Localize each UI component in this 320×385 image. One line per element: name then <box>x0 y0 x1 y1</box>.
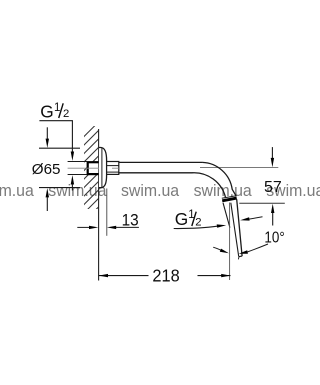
svg-text:13: 13 <box>122 212 139 230</box>
svg-text:2: 2 <box>195 216 201 228</box>
svg-text:1: 1 <box>54 102 60 114</box>
svg-text:10°: 10° <box>264 229 284 246</box>
svg-text:218: 218 <box>152 266 179 286</box>
svg-text:G: G <box>175 209 188 229</box>
svg-text:swim.ua: swim.ua <box>0 182 35 200</box>
svg-text:swim.ua: swim.ua <box>121 182 180 200</box>
svg-text:57: 57 <box>264 179 282 196</box>
svg-text:2: 2 <box>63 108 69 120</box>
svg-text:Ø65: Ø65 <box>32 161 61 178</box>
svg-text:G: G <box>40 101 53 121</box>
